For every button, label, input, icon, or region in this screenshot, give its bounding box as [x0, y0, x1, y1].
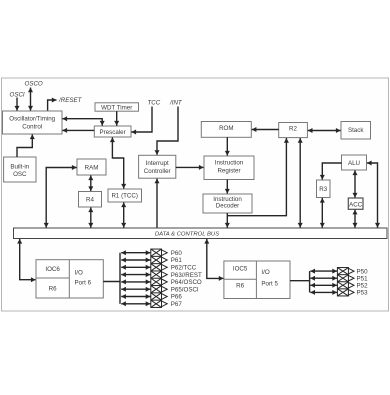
box ALU: [342, 155, 367, 170]
svg-text:R6: R6: [236, 283, 244, 290]
wire /INT to interrupt controller: [157, 107, 178, 155]
svg-text:P66: P66: [171, 294, 183, 301]
wire bus to ALU right: [367, 163, 378, 228]
svg-text:I/O: I/O: [261, 269, 269, 276]
svg-text:I/O: I/O: [75, 269, 83, 276]
box R3: [317, 180, 331, 198]
wire port6 row arrows: [121, 253, 150, 304]
svg-text:P60: P60: [171, 250, 183, 257]
box R1 (TCC): [108, 189, 142, 202]
svg-text:Controller: Controller: [144, 168, 171, 175]
wire bus to port5 block: [207, 239, 224, 279]
svg-text:/INT: /INT: [169, 100, 183, 107]
wire R3-bus bidirectional: [321, 198, 323, 228]
svg-text:Prescaler: Prescaler: [100, 129, 126, 136]
svg-text:Register: Register: [217, 168, 240, 175]
wire port5 row arrows: [310, 271, 337, 292]
wire bus to interrupt controller: [156, 179, 158, 228]
svg-text:IOC6: IOC6: [45, 266, 60, 273]
wire port5 feeder vertical: [309, 271, 311, 292]
wire WDT Timer to Prescaler: [116, 111, 118, 125]
wire interrupt controller to instruction register: [176, 166, 204, 168]
svg-text:P67: P67: [171, 301, 183, 308]
box Prescaler: [94, 126, 131, 137]
svg-text:Port 5: Port 5: [261, 281, 278, 288]
svg-text:WDT Timer: WDT Timer: [101, 105, 132, 112]
wire ALU-ACC bidirectional: [354, 170, 356, 197]
wire port6 to pin feeder: [103, 281, 120, 283]
wire OSCI to oscillator: [16, 98, 18, 111]
svg-text:IOC5: IOC5: [233, 266, 248, 273]
wire R2-bus bidirectional: [299, 138, 301, 228]
wire R2-Stack bidirectional: [308, 130, 341, 132]
svg-text:ROM: ROM: [219, 125, 233, 132]
box port6 IOC6/R6/IO: [36, 260, 103, 298]
svg-text:Decoder: Decoder: [216, 203, 239, 210]
svg-text:P65/OSCI: P65/OSCI: [171, 286, 199, 293]
port5 pin labels: [357, 268, 369, 296]
svg-text:R3: R3: [319, 186, 327, 193]
wire prescaler to oscillator: [62, 129, 94, 131]
wire /RESET out of oscillator: [48, 100, 57, 111]
svg-text:P51: P51: [357, 275, 369, 282]
port6 pad output triangles: [162, 250, 168, 307]
box ACC: [348, 198, 363, 209]
port6 pin labels: [171, 250, 202, 308]
svg-text:P53: P53: [357, 290, 369, 297]
box oscillator/timing control: [3, 111, 63, 134]
box WDT Timer: [95, 103, 139, 112]
box RAM: [77, 159, 106, 175]
port5 pad output triangles: [348, 268, 354, 295]
box Instruction Register: [204, 156, 254, 180]
box port5 IOC5/R6/IO: [224, 261, 290, 299]
svg-text:OSC: OSC: [13, 171, 27, 178]
wire instruction decoder to bus: [226, 213, 228, 228]
wire ALU to R3: [322, 163, 341, 180]
svg-text:/RESET: /RESET: [58, 97, 83, 104]
svg-text:R2: R2: [289, 126, 297, 133]
svg-text:P52: P52: [357, 283, 369, 290]
svg-text:Oscillator/Timing: Oscillator/Timing: [9, 116, 55, 123]
wire prescaler-R1 bidirectional jog: [112, 137, 123, 188]
box Interrupt Controller: [139, 155, 176, 178]
wire R4-bus bidirectional: [90, 207, 92, 227]
svg-text:Stack: Stack: [348, 127, 364, 134]
wire R1-bus bidirectional: [123, 202, 125, 227]
svg-text:P50: P50: [357, 268, 369, 275]
outer frame: [2, 78, 389, 311]
svg-text:Port 6: Port 6: [75, 279, 92, 286]
wire R2 to ROM: [252, 129, 279, 131]
wire OSCO bidirectional: [30, 88, 32, 111]
svg-text:Control: Control: [22, 124, 42, 131]
port6 pad buffers column: [151, 249, 162, 307]
svg-text:DATA & CONTROL BUS: DATA & CONTROL BUS: [155, 231, 219, 237]
svg-text:OSCI: OSCI: [10, 92, 25, 99]
svg-text:P61: P61: [171, 257, 183, 264]
svg-text:RAM: RAM: [85, 165, 99, 172]
wire TCC to prescaler: [131, 107, 152, 133]
box Stack: [341, 122, 371, 140]
port5 pad buffers column: [337, 268, 348, 296]
wire ROM to instruction register: [226, 137, 228, 155]
wire oscillator-prescaler bidirectional bend: [62, 119, 102, 126]
box R2: [279, 123, 308, 138]
svg-text:R4: R4: [86, 197, 94, 204]
bus bar DATA & CONTROL BUS: [14, 228, 388, 239]
wire Built-in OSC to oscillator: [17, 134, 32, 157]
svg-text:OSCO: OSCO: [25, 81, 43, 88]
wire port5 to pin feeder: [290, 280, 310, 282]
wire port6 feeder vertical: [119, 253, 121, 304]
svg-text:R1 (TCC): R1 (TCC): [111, 193, 137, 200]
svg-text:Built-in: Built-in: [10, 163, 29, 170]
svg-text:ACC: ACC: [349, 201, 363, 208]
box ROM: [201, 122, 251, 138]
svg-text:Interrupt: Interrupt: [146, 160, 169, 167]
wire instruction register to decoder: [226, 180, 228, 194]
svg-text:ALU: ALU: [348, 160, 360, 167]
box Instruction Decoder: [203, 194, 252, 213]
svg-text:P63//REST: P63//REST: [171, 272, 202, 279]
svg-text:R6: R6: [49, 285, 57, 292]
wire instruction decoder to R2: [227, 138, 286, 216]
svg-text:Instruction: Instruction: [215, 160, 244, 167]
box R4: [79, 192, 102, 208]
wire ACC-bus bidirectional: [354, 210, 356, 228]
svg-text:P64/OSCO: P64/OSCO: [171, 279, 202, 286]
box Built-in OSC: [4, 157, 36, 182]
wire bus to port6 block: [20, 239, 36, 280]
wire bus to RAM: [46, 168, 76, 228]
svg-text:P62/TCC: P62/TCC: [171, 265, 197, 272]
wire RAM-R4 bidirectional: [90, 175, 92, 191]
svg-text:TCC: TCC: [148, 100, 161, 107]
